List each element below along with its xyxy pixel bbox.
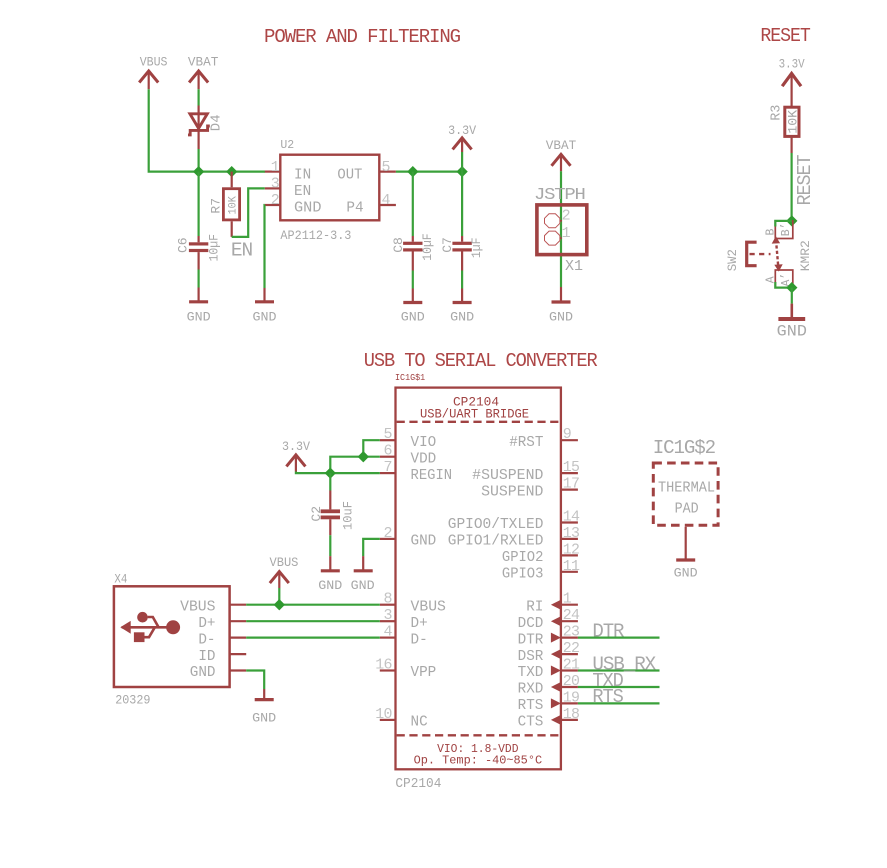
svg-text:OUT: OUT <box>337 167 362 183</box>
svg-text:10K: 10K <box>787 109 801 134</box>
svg-text:X4: X4 <box>114 572 127 587</box>
svg-text:5: 5 <box>383 426 392 443</box>
svg-text:3.3V: 3.3V <box>282 439 310 454</box>
diode D4 (schottky, pointing down) <box>188 106 210 150</box>
svg-text:D4: D4 <box>209 114 225 131</box>
wire R7 to EN pin <box>232 188 265 237</box>
svg-text:17: 17 <box>563 476 580 493</box>
svg-text:GPIO0/TXLED: GPIO0/TXLED <box>448 517 544 533</box>
svg-text:RTS: RTS <box>518 698 544 714</box>
junction at C2/REGIN <box>325 467 336 478</box>
svg-text:IC1G$1: IC1G$1 <box>395 372 425 383</box>
wire VBUS symbol to VBUS net <box>278 588 280 605</box>
wire TXD (pin 20) <box>578 686 660 688</box>
svg-text:D+: D+ <box>198 616 215 632</box>
svg-text:D-: D- <box>198 632 215 648</box>
wire bus junction to C6 <box>198 172 200 236</box>
ground under C6 <box>189 288 208 302</box>
svg-text:P4: P4 <box>346 200 363 216</box>
resistor R7 <box>223 172 239 237</box>
U2 pin 1 stub <box>265 171 281 173</box>
switch SW2 contact B box <box>775 221 793 239</box>
svg-text:7: 7 <box>383 459 391 476</box>
svg-text:JSTPH: JSTPH <box>534 186 585 205</box>
junction at VDD row <box>358 451 369 462</box>
svg-text:10: 10 <box>375 706 392 723</box>
capacitor C7 <box>452 236 471 271</box>
svg-text:RTS: RTS <box>592 686 623 708</box>
wire X4 GND to gnd <box>246 671 264 690</box>
supply symbol VBAT (over X1) <box>552 154 571 171</box>
wire VIO row (pin 5) <box>363 440 380 457</box>
X4 pin labels <box>180 599 215 681</box>
svg-text:D-: D- <box>411 632 428 648</box>
X4 pin stubs <box>230 605 247 671</box>
svg-text:VBAT: VBAT <box>546 138 577 153</box>
switch SW2 contact A box <box>775 270 793 288</box>
svg-text:21: 21 <box>563 657 580 674</box>
wire OUT to C7 <box>461 172 463 236</box>
svg-text:3.3V: 3.3V <box>779 57 805 72</box>
junction at switch A <box>786 282 797 293</box>
wire 3.3V to OUT <box>461 152 463 172</box>
IC left pin numbers <box>375 426 392 723</box>
X1 pad 1 stub <box>560 237 562 239</box>
svg-text:GND: GND <box>318 578 342 593</box>
switch arm (dash-dot) <box>776 240 778 269</box>
supply symbol 3.3V (over C2) <box>286 455 305 472</box>
capacitor C2 <box>321 491 340 536</box>
svg-text:B’: B’ <box>780 222 793 236</box>
U2 pin 3 stub <box>265 187 281 189</box>
svg-text:GND: GND <box>190 665 216 681</box>
svg-text:DSR: DSR <box>518 649 544 665</box>
supply symbol VBAT <box>189 71 208 89</box>
wire USB_RX (pin 21) <box>578 669 660 671</box>
op-amp IC1G$1 box (CP2104) <box>396 388 561 770</box>
junction at VBAT/bus <box>193 166 204 177</box>
svg-text:GPIO2: GPIO2 <box>502 550 544 566</box>
switch actuator bracket <box>747 242 757 266</box>
svg-text:GND: GND <box>187 309 211 324</box>
U2 pin 5 stub <box>379 171 396 173</box>
resistor R3 <box>785 107 799 153</box>
U2 pin 4 stub <box>379 204 396 206</box>
ground under SW2 <box>778 304 805 319</box>
svg-text:3: 3 <box>271 176 280 193</box>
svg-text:2: 2 <box>383 525 391 542</box>
svg-text:3.3V: 3.3V <box>448 123 476 138</box>
wire OUT to C8 <box>412 172 414 236</box>
svg-text:RXD: RXD <box>518 682 544 698</box>
svg-text:C7: C7 <box>440 237 455 253</box>
svg-text:RESET: RESET <box>794 155 816 206</box>
svg-text:IC1G$2: IC1G$2 <box>653 437 716 459</box>
svg-text:VBUS: VBUS <box>270 555 299 570</box>
svg-text:SUSPEND: SUSPEND <box>481 484 543 500</box>
svg-text:GND: GND <box>674 566 698 581</box>
wire VBAT to diode <box>198 89 200 105</box>
svg-text:1: 1 <box>271 159 280 176</box>
svg-text:VBUS: VBUS <box>140 55 168 70</box>
junction at C8 <box>407 166 418 177</box>
svg-text:23: 23 <box>563 624 580 641</box>
svg-text:VIO: VIO <box>411 435 437 451</box>
svg-text:GND: GND <box>411 534 437 550</box>
switch arm arrowhead bottom <box>774 264 782 271</box>
svg-text:KMR2: KMR2 <box>798 240 813 271</box>
svg-text:GND: GND <box>351 578 375 593</box>
USB icon trident <box>120 612 180 642</box>
IC left pin stubs 5,6,7,2,8,3,4,16,10 <box>380 440 396 720</box>
junction at VBUS <box>274 599 285 610</box>
svg-text:1: 1 <box>562 225 571 242</box>
svg-text:ID: ID <box>198 649 215 665</box>
svg-text:GND: GND <box>450 309 474 324</box>
supply symbol VBUS (over X4) <box>270 572 289 588</box>
svg-text:D+: D+ <box>411 616 428 632</box>
svg-text:10µF: 10µF <box>206 234 221 262</box>
ground under thermal pad <box>676 558 695 561</box>
svg-text:24: 24 <box>563 607 580 624</box>
X1 pad 2 stub <box>560 220 562 222</box>
svg-text:20329: 20329 <box>115 692 150 707</box>
svg-text:POWER AND FILTERING: POWER AND FILTERING <box>264 26 461 48</box>
ground under U2 pin2 <box>255 288 274 302</box>
svg-text:DTR: DTR <box>518 632 544 648</box>
svg-text:RESET: RESET <box>760 25 810 47</box>
svg-text:#RST: #RST <box>509 435 544 451</box>
svg-text:1µF: 1µF <box>469 238 484 259</box>
wire junction to C2 <box>329 473 331 490</box>
actuator dashed link <box>750 253 771 255</box>
ground under C2 <box>321 556 340 571</box>
IC right pin names <box>448 435 544 731</box>
wire junction to contact B <box>775 221 792 227</box>
svg-text:VBUS: VBUS <box>180 599 215 615</box>
svg-text:2: 2 <box>562 208 570 225</box>
wire diode to bus <box>198 149 200 172</box>
capacitor C6 <box>189 236 208 270</box>
svg-text:14: 14 <box>563 509 580 526</box>
ground under X1 <box>552 287 571 302</box>
svg-text:VDD: VDD <box>411 451 437 467</box>
wire VDD row (pin 6) <box>330 457 380 473</box>
wire contact A to junction <box>775 282 792 288</box>
connector X4 box <box>114 586 230 687</box>
svg-text:GPIO1/RXLED: GPIO1/RXLED <box>448 534 544 550</box>
ground under C8 <box>403 289 422 303</box>
svg-text:18: 18 <box>563 706 580 723</box>
svg-text:VPP: VPP <box>411 665 437 681</box>
svg-text:GPIO3: GPIO3 <box>502 567 544 583</box>
svg-text:THERMAL: THERMAL <box>658 481 715 497</box>
svg-text:GND: GND <box>777 323 807 341</box>
U2 pin 2 stub <box>265 204 281 206</box>
svg-text:10uF: 10uF <box>341 501 356 530</box>
svg-text:C6: C6 <box>175 237 190 253</box>
wire U2 OUT net <box>396 171 462 173</box>
op-amp U2 box (AP2112) <box>280 155 379 221</box>
wire C8 to gnd <box>412 271 414 289</box>
junction at R7/bus <box>226 166 237 177</box>
thermal pad IC1G$2 dashed box <box>653 463 718 525</box>
svg-text:8: 8 <box>383 591 392 608</box>
wire C6 to gnd <box>198 270 200 288</box>
svg-text:IN: IN <box>294 167 311 183</box>
svg-text:CTS: CTS <box>518 715 544 731</box>
svg-text:GND: GND <box>294 200 322 216</box>
ground under IC pin2 <box>354 556 373 571</box>
svg-text:U2: U2 <box>280 139 294 152</box>
svg-text:9: 9 <box>563 426 571 443</box>
svg-text:EN: EN <box>231 240 252 262</box>
svg-text:2: 2 <box>271 192 279 209</box>
svg-text:DCD: DCD <box>518 616 544 632</box>
wire 3.3V to REGIN (pin 7) <box>296 472 380 474</box>
IC right pin stubs 9,15,17,14,13,12,11,1,24,23,22,21,20,19,18 <box>561 440 578 720</box>
svg-text:PAD: PAD <box>675 501 699 517</box>
svg-text:C2: C2 <box>309 506 324 522</box>
svg-text:X1: X1 <box>565 258 583 275</box>
wire X4 D- to IC pin 4 <box>246 636 380 638</box>
svg-text:10K: 10K <box>227 196 239 215</box>
svg-text:20: 20 <box>563 673 580 690</box>
svg-text:22: 22 <box>563 640 580 657</box>
ground under X4 <box>255 689 274 700</box>
svg-text:13: 13 <box>563 525 580 542</box>
svg-text:19: 19 <box>563 689 580 706</box>
junction at C7/3.3V <box>456 166 467 177</box>
svg-text:VBUS: VBUS <box>411 599 446 615</box>
wire IC GND (pin 2) <box>363 539 380 556</box>
wire X4 VBUS to IC pin 8 <box>246 604 380 606</box>
svg-text:RI: RI <box>526 599 543 615</box>
svg-text:12: 12 <box>563 541 580 558</box>
capacitor C8 <box>403 236 422 271</box>
IC right pin numbers <box>563 426 580 723</box>
wire RTS (pin 19) <box>578 702 660 704</box>
wire switch to gnd <box>791 288 793 304</box>
svg-text:USB/UART BRIDGE: USB/UART BRIDGE <box>420 407 529 421</box>
svg-text:C8: C8 <box>391 237 406 253</box>
X1 pad 2 (octagon) <box>545 214 560 228</box>
thermal pad stub <box>685 527 687 559</box>
svg-text:Op. Temp: -40~85°C: Op. Temp: -40~85°C <box>414 754 542 768</box>
IC dashed separator top <box>397 421 560 423</box>
svg-text:11: 11 <box>563 558 580 575</box>
svg-text:TXD: TXD <box>518 665 544 681</box>
svg-text:GND: GND <box>401 309 425 324</box>
supply symbol 3.3V (reset) <box>782 73 801 106</box>
svg-text:B: B <box>765 229 778 236</box>
svg-text:15: 15 <box>563 459 580 476</box>
supply symbol 3.3V (over OUT) <box>453 138 472 152</box>
svg-text:GND: GND <box>252 710 276 725</box>
svg-text:5: 5 <box>382 159 391 176</box>
switch arm arrowhead top <box>772 236 780 243</box>
wire DTR (pin 23) <box>578 636 660 638</box>
svg-text:R3: R3 <box>769 105 784 121</box>
wire C7 to gnd <box>461 271 463 289</box>
svg-text:GND: GND <box>253 309 277 324</box>
supply symbol VBUS (top-left) <box>139 71 158 89</box>
svg-text:1: 1 <box>563 591 572 608</box>
svg-text:#SUSPEND: #SUSPEND <box>472 468 543 484</box>
IC left pin names <box>411 435 453 731</box>
svg-text:3: 3 <box>383 607 392 624</box>
wire X4 D+ to IC pin 3 <box>246 620 380 622</box>
svg-text:4: 4 <box>383 624 392 641</box>
junction at switch B <box>786 215 797 226</box>
svg-text:DTR: DTR <box>592 620 624 642</box>
svg-text:16: 16 <box>375 657 392 674</box>
svg-text:6: 6 <box>383 443 392 460</box>
svg-text:NC: NC <box>411 715 428 731</box>
svg-text:AP2112-3.3: AP2112-3.3 <box>280 228 351 243</box>
svg-text:EN: EN <box>294 184 311 200</box>
svg-text:4: 4 <box>382 192 391 209</box>
wire R3 to switch <box>790 153 792 221</box>
svg-text:10µF: 10µF <box>420 233 435 261</box>
svg-text:CP2104: CP2104 <box>395 777 441 792</box>
svg-text:VBAT: VBAT <box>188 55 219 70</box>
ground under C7 <box>453 289 472 303</box>
svg-text:SW2: SW2 <box>725 249 740 271</box>
IC pin direction arrows (right side) <box>551 600 561 725</box>
svg-text:GND: GND <box>549 309 573 324</box>
svg-text:USB TO SERIAL CONVERTER: USB TO SERIAL CONVERTER <box>364 350 598 372</box>
svg-text:A: A <box>765 276 778 283</box>
svg-text:R7: R7 <box>209 198 224 214</box>
X1 pad 1 (octagon) <box>545 231 560 245</box>
wire U2 pin2 to gnd <box>263 205 265 288</box>
connector X1 box <box>537 205 587 255</box>
IC dashed separator bottom <box>397 734 560 736</box>
wire VBAT through X1 to gnd <box>560 171 562 287</box>
svg-text:REGIN: REGIN <box>411 468 453 484</box>
wire C2 to gnd <box>329 535 331 556</box>
wire VBUS vertical + to U2 pin1 <box>149 89 265 171</box>
